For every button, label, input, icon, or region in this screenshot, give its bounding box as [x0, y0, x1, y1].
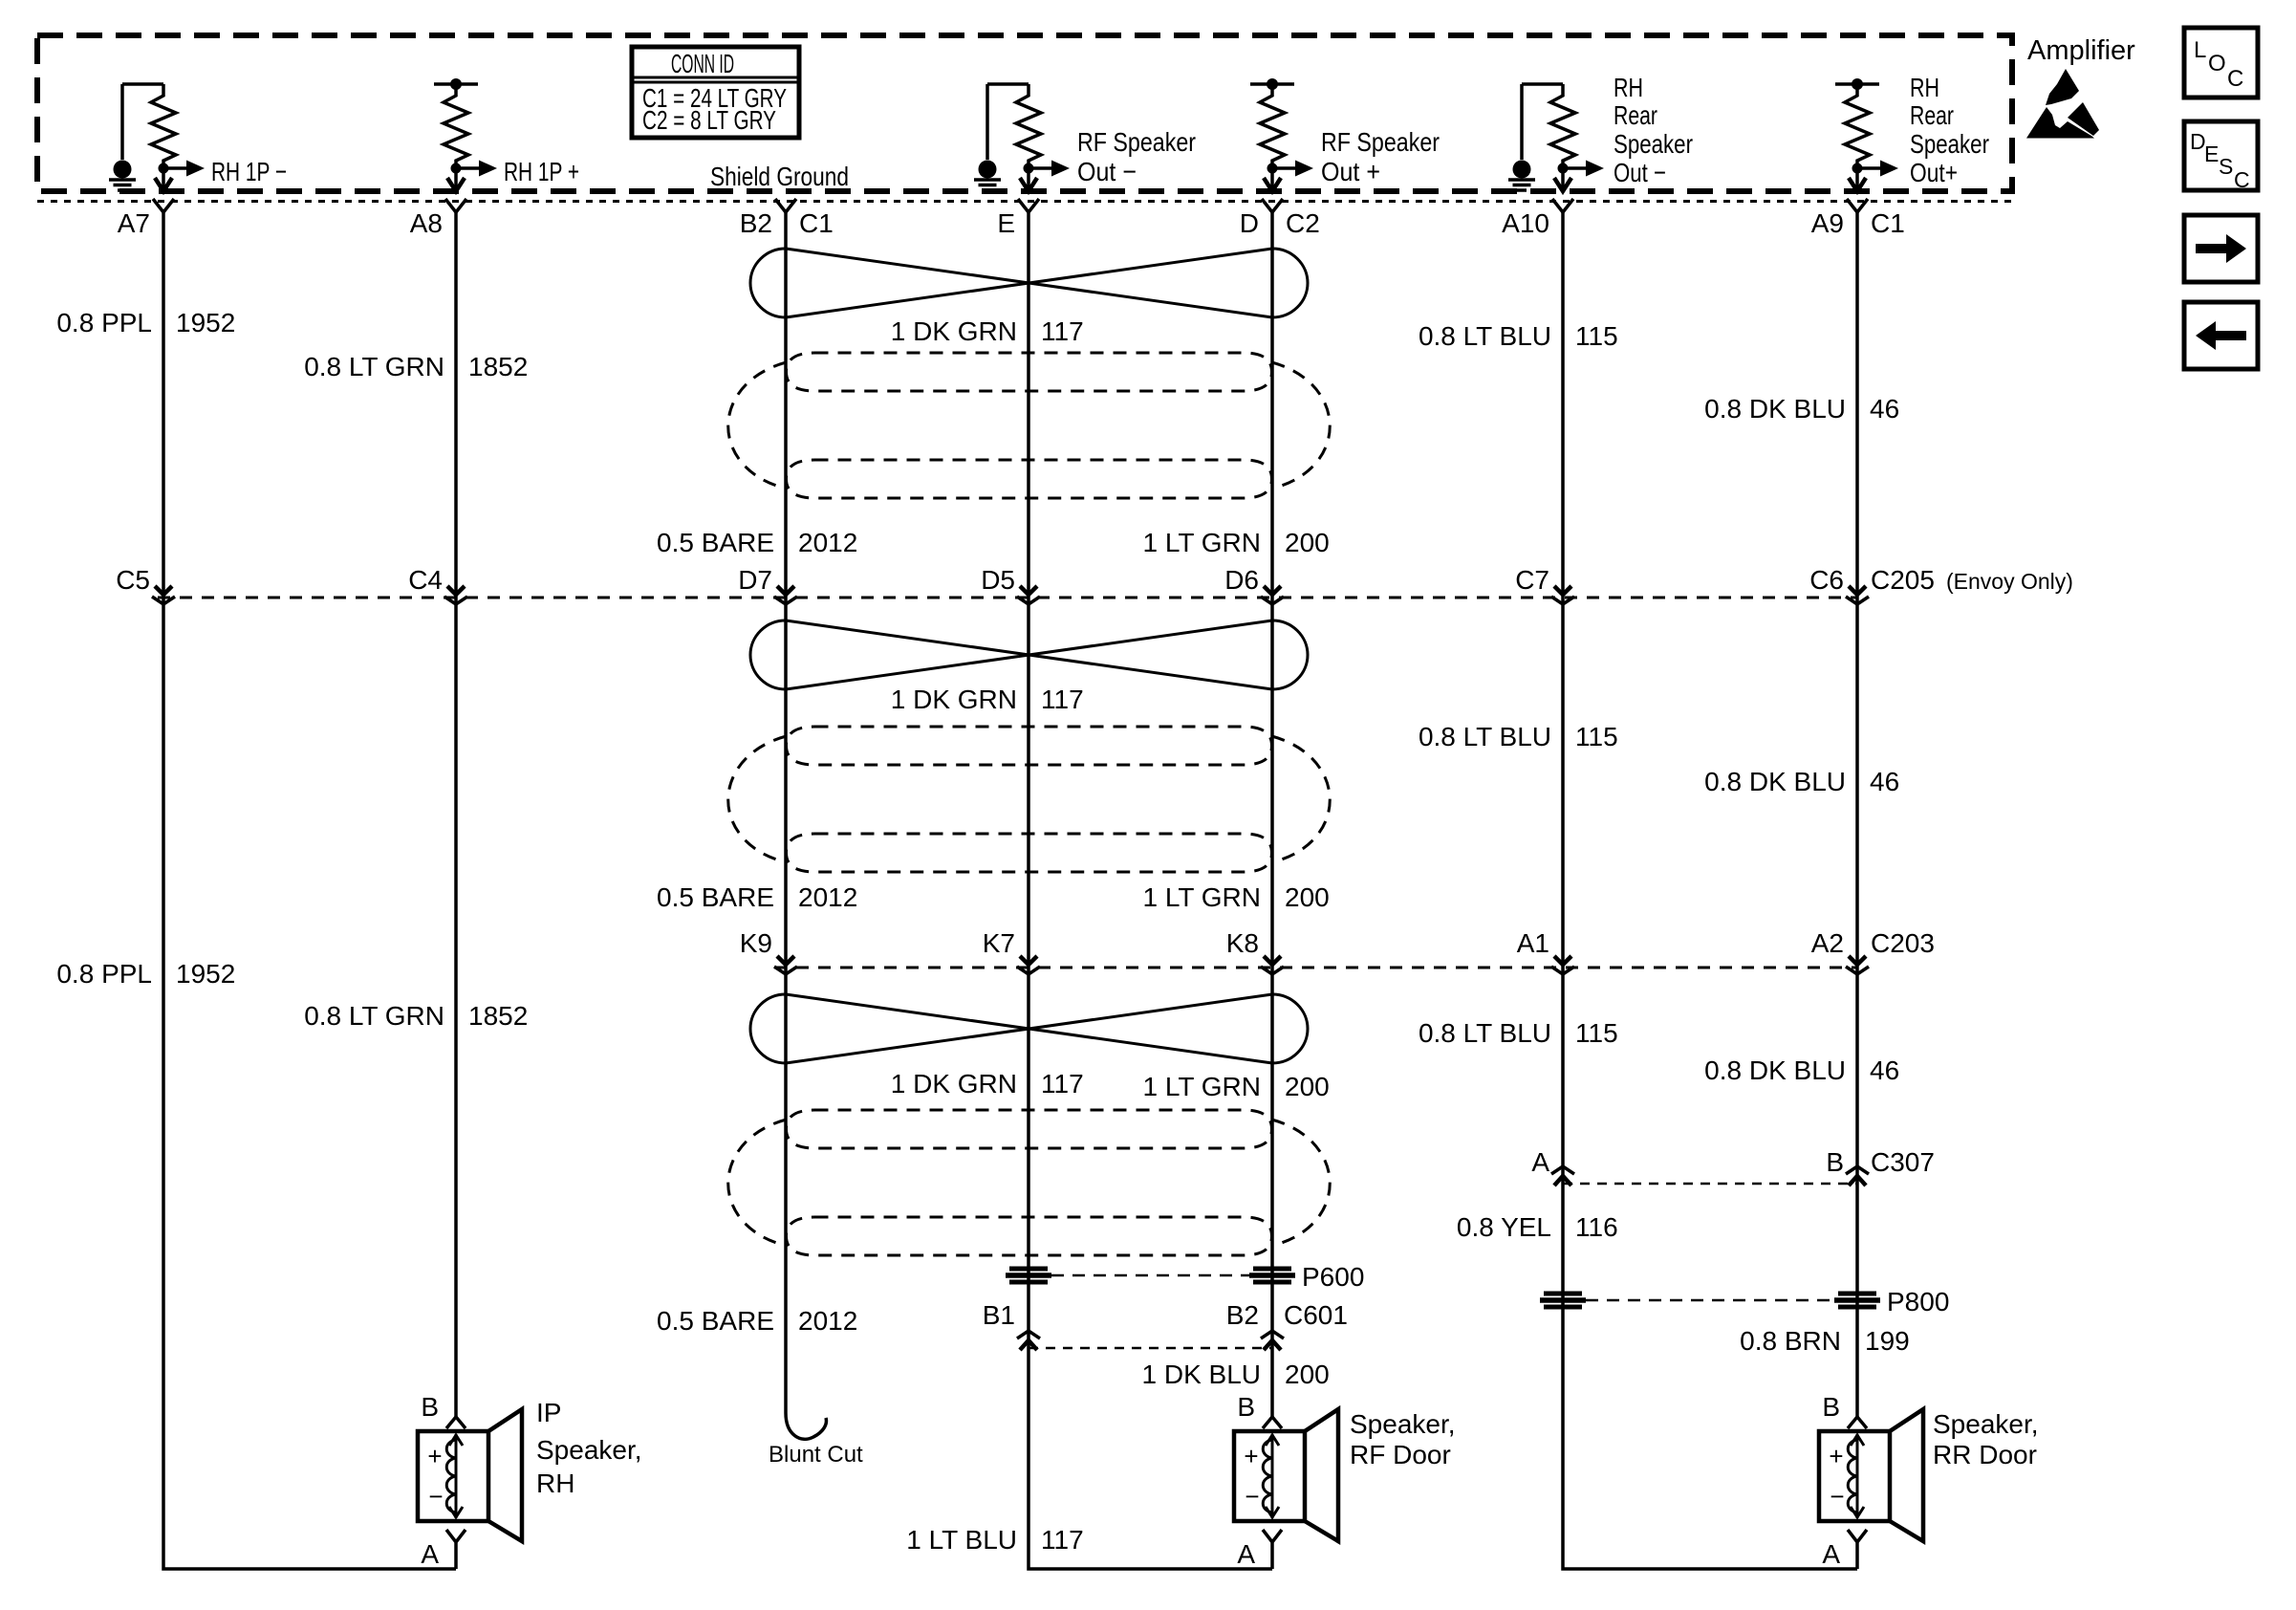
svg-text:C2: C2 [1286, 208, 1320, 238]
svg-text:K7: K7 [983, 928, 1015, 958]
svg-text:A2: A2 [1811, 928, 1844, 958]
svg-text:200: 200 [1285, 882, 1330, 912]
svg-text:C7: C7 [1515, 565, 1549, 595]
svg-text:Out +: Out + [1321, 157, 1380, 186]
svg-text:1 LT GRN: 1 LT GRN [1143, 882, 1261, 912]
svg-text:0.8 PPL: 0.8 PPL [56, 308, 152, 337]
svg-text:46: 46 [1870, 394, 1899, 424]
svg-text:B2: B2 [1226, 1300, 1259, 1330]
svg-text:0.8 YEL: 0.8 YEL [1457, 1212, 1551, 1242]
svg-text:2012: 2012 [798, 528, 857, 557]
svg-text:IP: IP [536, 1398, 561, 1427]
svg-text:46: 46 [1870, 767, 1899, 796]
svg-text:2012: 2012 [798, 882, 857, 912]
svg-text:D7: D7 [738, 565, 772, 595]
svg-text:Speaker,: Speaker, [1933, 1409, 2039, 1439]
svg-text:A: A [1531, 1147, 1549, 1177]
svg-text:RF Speaker: RF Speaker [1321, 127, 1440, 157]
svg-text:A1: A1 [1517, 928, 1549, 958]
svg-text:RH: RH [536, 1469, 574, 1498]
svg-text:Speaker,: Speaker, [1350, 1409, 1456, 1439]
svg-text:S: S [2219, 154, 2233, 179]
svg-text:C1: C1 [1871, 208, 1905, 238]
svg-text:D6: D6 [1224, 565, 1259, 595]
svg-text:A9: A9 [1811, 208, 1844, 238]
svg-text:CONN ID: CONN ID [671, 49, 734, 78]
svg-text:200: 200 [1285, 528, 1330, 557]
svg-text:0.5 BARE: 0.5 BARE [657, 882, 774, 912]
svg-text:Rear: Rear [1614, 100, 1657, 130]
svg-text:0.8 LT BLU: 0.8 LT BLU [1419, 722, 1551, 751]
svg-text:E: E [2204, 141, 2219, 166]
svg-text:0.8 PPL: 0.8 PPL [56, 959, 152, 989]
svg-text:RR Door: RR Door [1933, 1440, 2037, 1469]
svg-text:117: 117 [1041, 316, 1084, 346]
svg-text:RF Speaker: RF Speaker [1077, 127, 1196, 157]
svg-text:46: 46 [1870, 1055, 1899, 1085]
svg-text:0.8 LT GRN: 0.8 LT GRN [304, 1001, 444, 1031]
svg-text:0.8 LT BLU: 0.8 LT BLU [1419, 321, 1551, 351]
svg-text:115: 115 [1575, 1018, 1618, 1048]
svg-text:A: A [1822, 1539, 1840, 1569]
svg-text:P800: P800 [1887, 1287, 1949, 1316]
svg-text:116: 116 [1575, 1212, 1618, 1242]
svg-text:C1: C1 [799, 208, 834, 238]
svg-text:RH 1P +: RH 1P + [504, 157, 579, 186]
svg-text:0.8 LT BLU: 0.8 LT BLU [1419, 1018, 1551, 1048]
svg-text:(Envoy Only): (Envoy Only) [1946, 569, 2073, 594]
svg-text:C601: C601 [1284, 1300, 1348, 1330]
svg-text:0.8 DK BLU: 0.8 DK BLU [1704, 767, 1846, 796]
svg-text:Out+: Out+ [1910, 158, 1958, 187]
svg-text:D5: D5 [981, 565, 1015, 595]
svg-text:Shield Ground: Shield Ground [710, 162, 849, 191]
svg-text:P600: P600 [1302, 1262, 1364, 1292]
svg-text:Speaker: Speaker [1614, 129, 1693, 159]
svg-text:0.8 DK BLU: 0.8 DK BLU [1704, 394, 1846, 424]
svg-text:C205: C205 [1871, 565, 1935, 595]
svg-text:0.8 BRN: 0.8 BRN [1740, 1326, 1841, 1356]
svg-text:C5: C5 [116, 565, 150, 595]
svg-text:A: A [421, 1539, 439, 1569]
svg-text:Speaker,: Speaker, [536, 1435, 642, 1465]
svg-text:1952: 1952 [176, 959, 235, 989]
svg-text:K9: K9 [740, 928, 772, 958]
svg-text:A: A [1237, 1539, 1255, 1569]
svg-text:115: 115 [1575, 321, 1618, 351]
svg-text:C: C [2227, 66, 2243, 92]
svg-text:2012: 2012 [798, 1306, 857, 1336]
svg-text:K8: K8 [1226, 928, 1259, 958]
svg-text:L: L [2194, 37, 2206, 63]
svg-text:RF Door: RF Door [1350, 1440, 1451, 1469]
svg-text:Blunt Cut: Blunt Cut [769, 1442, 863, 1468]
svg-text:A10: A10 [1502, 208, 1549, 238]
svg-text:1852: 1852 [468, 1001, 528, 1031]
svg-text:0.8 LT GRN: 0.8 LT GRN [304, 352, 444, 381]
svg-text:B: B [1826, 1147, 1844, 1177]
svg-text:C6: C6 [1809, 565, 1844, 595]
svg-text:Rear: Rear [1910, 100, 1954, 130]
svg-text:200: 200 [1285, 1360, 1330, 1389]
svg-text:A8: A8 [410, 208, 443, 238]
svg-text:0.8 DK BLU: 0.8 DK BLU [1704, 1055, 1846, 1085]
svg-text:B: B [421, 1392, 439, 1422]
svg-text:RH: RH [1614, 73, 1643, 102]
svg-text:117: 117 [1041, 685, 1084, 714]
svg-text:1 LT BLU: 1 LT BLU [906, 1525, 1017, 1555]
svg-text:E: E [997, 208, 1015, 238]
svg-text:C: C [2234, 167, 2250, 192]
svg-text:C2 = 8 LT GRY: C2 = 8 LT GRY [642, 105, 776, 135]
svg-text:Amplifier: Amplifier [2027, 35, 2135, 66]
svg-text:200: 200 [1285, 1072, 1330, 1101]
svg-text:117: 117 [1041, 1069, 1084, 1099]
svg-text:C307: C307 [1871, 1147, 1935, 1177]
svg-text:C4: C4 [408, 565, 443, 595]
svg-text:B: B [1822, 1392, 1840, 1422]
svg-text:115: 115 [1575, 722, 1618, 751]
svg-text:1852: 1852 [468, 352, 528, 381]
svg-text:1 DK GRN: 1 DK GRN [891, 1069, 1017, 1099]
svg-text:RH: RH [1910, 73, 1939, 102]
svg-text:0.5 BARE: 0.5 BARE [657, 528, 774, 557]
svg-text:Speaker: Speaker [1910, 129, 1989, 159]
svg-text:1 DK GRN: 1 DK GRN [891, 316, 1017, 346]
svg-text:1 LT GRN: 1 LT GRN [1143, 528, 1261, 557]
svg-text:RH 1P −: RH 1P − [211, 157, 287, 186]
svg-text:B: B [1237, 1392, 1255, 1422]
svg-text:199: 199 [1865, 1326, 1910, 1356]
svg-text:Out −: Out − [1077, 157, 1137, 186]
svg-text:B2: B2 [740, 208, 772, 238]
svg-text:A7: A7 [118, 208, 150, 238]
svg-text:D: D [1240, 208, 1259, 238]
svg-text:1952: 1952 [176, 308, 235, 337]
svg-text:117: 117 [1041, 1525, 1084, 1555]
svg-text:1 LT GRN: 1 LT GRN [1143, 1072, 1261, 1101]
svg-text:C203: C203 [1871, 928, 1935, 958]
svg-text:B1: B1 [983, 1300, 1015, 1330]
svg-text:1 DK GRN: 1 DK GRN [891, 685, 1017, 714]
svg-text:O: O [2208, 51, 2226, 76]
svg-text:0.5 BARE: 0.5 BARE [657, 1306, 774, 1336]
svg-text:Out −: Out − [1614, 158, 1666, 187]
svg-text:1 DK BLU: 1 DK BLU [1142, 1360, 1262, 1389]
